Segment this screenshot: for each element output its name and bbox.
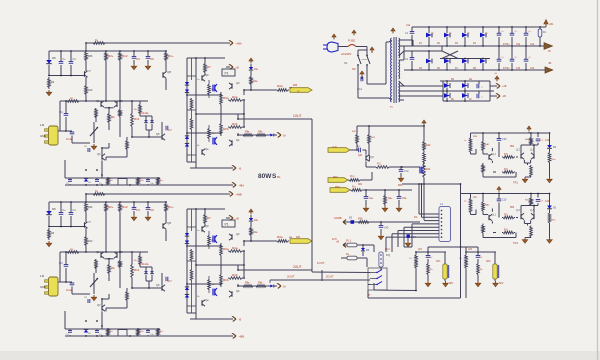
svg-text:R1+: R1+	[168, 205, 174, 209]
svg-text:R.C: R.C	[377, 163, 381, 166]
svg-text:C3: C3	[136, 57, 140, 61]
svg-text:R33: R33	[293, 85, 298, 87]
svg-text:R10: R10	[88, 240, 93, 243]
svg-text:TR1: TR1	[513, 241, 518, 245]
svg-text:R22: R22	[426, 144, 431, 147]
svg-text:C40: C40	[384, 227, 389, 230]
svg-text:Q3: Q3	[236, 232, 240, 236]
svg-text:1K: 1K	[297, 92, 300, 94]
svg-text:C*: C*	[89, 70, 92, 73]
svg-text:CP2: CP2	[486, 261, 491, 263]
svg-text:R06: R06	[88, 206, 93, 209]
svg-text:2CH: 2CH	[332, 239, 337, 241]
svg-text:D2+: D2+	[254, 219, 259, 222]
svg-text:R4b: R4b	[232, 122, 238, 126]
svg-text:ACMB: ACMB	[334, 216, 342, 220]
svg-text:R4a: R4a	[232, 95, 238, 99]
svg-text:Q9: Q9	[205, 73, 209, 77]
svg-text:R0a: R0a	[223, 96, 229, 100]
svg-text:Rz: Rz	[134, 260, 137, 262]
svg-text:Ra+: Ra+	[388, 197, 393, 200]
svg-text:C1: C1	[59, 261, 63, 265]
svg-text:1D: 1D	[88, 182, 91, 184]
svg-text:Qb: Qb	[236, 138, 240, 142]
svg-text:+B: +B	[236, 216, 240, 220]
svg-text:C1a: C1a	[66, 288, 72, 292]
svg-text:Q5: Q5	[156, 283, 160, 287]
svg-text:1-B: 1-B	[40, 123, 44, 127]
svg-text:C4a: C4a	[530, 44, 535, 46]
svg-text:+B1: +B1	[549, 23, 554, 26]
svg-text:D2+: D2+	[254, 68, 259, 71]
svg-text:C.M: C.M	[404, 170, 408, 173]
svg-text:C0a: C0a	[402, 197, 407, 200]
svg-text:1OUT: 1OUT	[317, 261, 325, 265]
svg-text:Q.2: Q.2	[516, 149, 521, 152]
svg-text:Q9: Q9	[205, 224, 209, 228]
svg-text:Q4: Q4	[97, 303, 101, 307]
svg-text:Rz: Rz	[134, 109, 137, 111]
svg-text:R11: R11	[134, 117, 140, 121]
svg-text:R2+: R2+	[108, 205, 114, 209]
svg-text:R.m: R.m	[350, 175, 354, 178]
svg-text:P1: P1	[225, 223, 229, 227]
svg-text:+1B: +1B	[502, 85, 507, 88]
svg-text:C*: C*	[89, 221, 92, 224]
svg-text:Q.8: Q.8	[370, 156, 375, 159]
svg-text:R12: R12	[122, 54, 128, 58]
svg-text:2OUT: 2OUT	[326, 275, 334, 279]
svg-text:80W: 80W	[258, 173, 272, 180]
svg-text:C10: C10	[502, 199, 507, 202]
svg-text:R51: R51	[510, 146, 515, 148]
svg-text:CA1: CA1	[357, 87, 363, 91]
svg-text:FU: FU	[543, 31, 546, 34]
svg-text:R0b: R0b	[223, 278, 229, 282]
svg-text:AC220V: AC220V	[341, 52, 352, 56]
svg-text:C9: C9	[150, 208, 154, 212]
svg-text:C9: C9	[150, 57, 154, 61]
svg-text:Qa: Qa	[205, 147, 209, 151]
svg-text:4700u: 4700u	[503, 68, 510, 70]
svg-text:1N414a: 1N414a	[140, 263, 149, 266]
svg-text:R3a: R3a	[277, 84, 283, 88]
svg-text:Rk: Rk	[111, 266, 115, 270]
svg-text:S1: S1	[344, 61, 348, 65]
svg-text:R.6: R.6	[504, 168, 508, 171]
svg-text:FU.1: FU.1	[346, 240, 352, 243]
svg-text:P1: P1	[225, 72, 229, 76]
svg-text:RL: RL	[277, 175, 281, 179]
svg-text:SP2: SP2	[499, 283, 504, 285]
svg-text:FUSE: FUSE	[348, 39, 355, 43]
svg-text:1N414a: 1N414a	[140, 112, 149, 115]
svg-text:+48A: +48A	[236, 41, 242, 45]
svg-text:Ca+: Ca+	[369, 197, 374, 200]
svg-text:MD: MD	[52, 57, 56, 60]
svg-text:R7: R7	[207, 65, 211, 69]
svg-text:R3a: R3a	[277, 235, 283, 239]
svg-text:R.5: R.5	[504, 153, 508, 156]
svg-text:GND: GND	[40, 134, 46, 138]
svg-text:PW2: PW2	[335, 187, 341, 189]
svg-text:R34: R34	[296, 237, 301, 239]
svg-text:Q.1: Q.1	[492, 153, 497, 156]
svg-text:1-B: 1-B	[40, 274, 44, 278]
svg-text:R24: R24	[426, 168, 431, 171]
svg-text:-48A: -48A	[239, 183, 245, 187]
svg-text:R62: R62	[398, 185, 403, 187]
svg-text:Q8: Q8	[167, 221, 171, 225]
svg-text:+B: +B	[236, 65, 240, 69]
svg-text:Q1: Q1	[96, 250, 100, 254]
svg-text:LP2: LP2	[468, 249, 473, 251]
svg-text:R0b: R0b	[223, 127, 229, 131]
svg-text:GND: GND	[40, 285, 46, 289]
svg-text:R10: R10	[88, 89, 93, 92]
svg-text:C3: C3	[136, 208, 140, 212]
svg-text:R12: R12	[122, 205, 128, 209]
svg-text:R2+: R2+	[108, 54, 114, 58]
svg-text:Q3: Q3	[236, 81, 240, 85]
svg-text:CP1: CP1	[436, 261, 441, 263]
svg-text:+48B: +48B	[236, 192, 242, 196]
svg-text:C10: C10	[502, 138, 507, 141]
svg-text:2OUT: 2OUT	[293, 265, 302, 269]
svg-text:C7: C7	[168, 279, 172, 283]
svg-text:R2a: R2a	[253, 80, 258, 83]
svg-text:R8b: R8b	[258, 282, 263, 285]
svg-text:-48B: -48B	[239, 334, 245, 338]
svg-text:Qa: Qa	[205, 298, 209, 302]
svg-text:0V: 0V	[548, 51, 551, 53]
svg-text:R8a: R8a	[245, 131, 250, 134]
svg-text:Q.1: Q.1	[492, 214, 497, 217]
svg-text:C13: C13	[545, 201, 550, 203]
svg-text:R8b: R8b	[258, 131, 263, 134]
svg-text:Q8: Q8	[167, 70, 171, 74]
svg-text:MD: MD	[52, 208, 56, 211]
svg-text:PW1: PW1	[333, 177, 339, 179]
svg-text:R52: R52	[510, 207, 515, 209]
svg-text:C12: C12	[545, 140, 550, 142]
svg-text:-B: -B	[239, 166, 242, 170]
svg-text:C7: C7	[168, 128, 172, 132]
svg-text:C3b: C3b	[516, 68, 521, 70]
svg-text:TR1: TR1	[513, 180, 518, 184]
svg-text:R2a: R2a	[253, 231, 258, 234]
svg-text:1OUT: 1OUT	[293, 114, 302, 118]
svg-text:DQ1: DQ1	[385, 249, 390, 251]
svg-text:R.6: R.6	[504, 229, 508, 232]
svg-text:R38: R38	[358, 217, 363, 220]
svg-text:C1a: C1a	[66, 137, 72, 141]
svg-text:R1+: R1+	[168, 54, 174, 58]
svg-text:Q.2: Q.2	[516, 209, 521, 212]
svg-text:1D: 1D	[88, 333, 91, 335]
svg-text:Q21: Q21	[358, 155, 363, 157]
svg-text:R11: R11	[134, 268, 140, 272]
svg-text:C3a: C3a	[516, 44, 521, 46]
svg-text:R.n: R.n	[352, 185, 356, 188]
svg-text:LP1: LP1	[418, 249, 423, 251]
svg-text:R4b: R4b	[232, 273, 238, 277]
svg-text:C1: C1	[59, 110, 63, 114]
svg-text:Rk: Rk	[111, 115, 115, 119]
svg-text:-1B: -1B	[502, 95, 506, 98]
svg-text:C1a: C1a	[406, 25, 411, 27]
svg-text:-B: -B	[239, 317, 242, 321]
svg-text:2OUT: 2OUT	[287, 275, 295, 279]
svg-text:4700u: 4700u	[503, 44, 510, 46]
svg-text:Q5: Q5	[156, 132, 160, 136]
svg-text:R61: R61	[358, 184, 363, 186]
svg-text:1CH: 1CH	[332, 147, 337, 149]
svg-text:R8a: R8a	[245, 282, 250, 285]
svg-text:R7: R7	[207, 216, 211, 220]
svg-text:Q1: Q1	[96, 99, 100, 103]
svg-text:SP1: SP1	[449, 283, 454, 285]
svg-text:C4b: C4b	[530, 68, 535, 70]
svg-text:Qb: Qb	[236, 289, 240, 293]
svg-text:R0a: R0a	[223, 247, 229, 251]
svg-text:R4a: R4a	[232, 246, 238, 250]
svg-text:R06: R06	[88, 55, 93, 58]
svg-text:Q4: Q4	[97, 152, 101, 156]
svg-text:PC4: PC4	[411, 235, 417, 239]
svg-text:R.5: R.5	[504, 214, 508, 217]
